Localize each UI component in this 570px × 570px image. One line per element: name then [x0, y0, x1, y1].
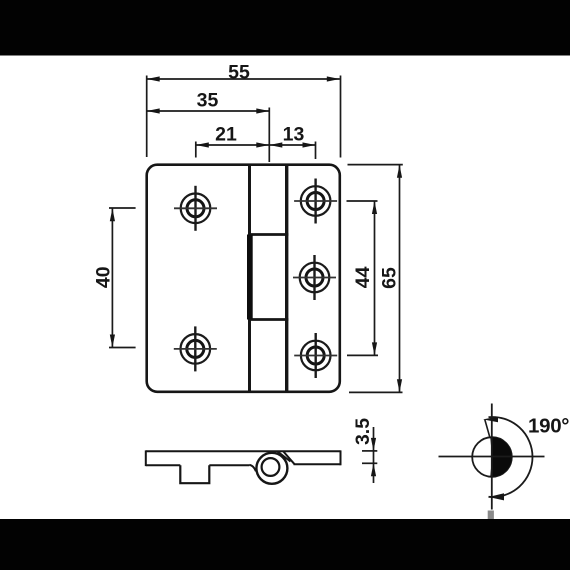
- svg-text:35: 35: [197, 90, 219, 112]
- extension tick bottom (bar bottom): [362, 462, 377, 464]
- arc end arrowhead: [489, 493, 505, 500]
- hole bottom-left: [174, 326, 217, 371]
- side view bar bottom edge segment 3: [294, 463, 341, 465]
- side view bar left edge: [145, 450, 147, 466]
- arrow below pointing up to bar bottom: [371, 463, 376, 476]
- extension line 13 right (hole column): [315, 142, 317, 160]
- hole top-left: [174, 186, 217, 231]
- hole middle-right: [293, 255, 336, 300]
- extension tick top (bar top): [362, 450, 377, 452]
- 190 degree arc: [489, 417, 533, 497]
- side view leaf wrap diagonal 2: [284, 452, 295, 465]
- centerline fade into bar: [488, 511, 494, 520]
- extension line top (plate top): [348, 164, 403, 166]
- angle start radial tick: [485, 420, 490, 438]
- arc start arrowhead: [483, 417, 498, 423]
- opening angle circle: [472, 437, 512, 477]
- side view leaf curl hook: [249, 465, 256, 471]
- hinge plate front view outline: [147, 165, 340, 392]
- side view bar bottom edge segment 1: [146, 464, 181, 466]
- side view bar right edge: [340, 450, 342, 465]
- extension tick bottom: [109, 347, 136, 349]
- extension line bottom (plate bottom): [349, 391, 403, 393]
- side view knuckle outer circle: [256, 453, 287, 484]
- top black letterbox bar: [0, 0, 570, 56]
- dimension 35 line: [147, 108, 270, 163]
- svg-text:190°: 190°: [528, 415, 569, 438]
- extension line right (plate right edge): [340, 76, 342, 158]
- side view bar bottom edge segment 2: [209, 464, 249, 466]
- knuckle upper divider: [248, 233, 288, 236]
- knuckle left edge line: [248, 164, 251, 393]
- svg-text:44: 44: [352, 266, 374, 288]
- svg-text:21: 21: [215, 124, 237, 146]
- svg-text:65: 65: [379, 267, 401, 289]
- svg-text:55: 55: [228, 61, 250, 83]
- opening angle filled 190-degree sector: [490, 437, 511, 477]
- arrow above pointing down to bar top: [371, 438, 376, 451]
- dimension 44 line: [347, 201, 379, 355]
- side view pin inner circle: [262, 458, 280, 476]
- bottom black letterbox bar: [0, 519, 570, 570]
- extension tick top: [109, 207, 136, 209]
- extension line bottom (hole row): [347, 354, 378, 356]
- hole bottom-right: [294, 333, 337, 378]
- dimension 40 line: [109, 208, 136, 348]
- dimension 3.5 line: [362, 427, 377, 483]
- dimension 21 line: [196, 142, 269, 158]
- side view mounting tab: [180, 465, 209, 483]
- angle symbol vertical centerline: [491, 404, 493, 510]
- hole top-right: [294, 179, 337, 224]
- knuckle lower divider: [248, 318, 288, 321]
- extension line 35 right (pin center): [268, 108, 270, 163]
- side view leaf wrap diagonal 1: [278, 452, 291, 462]
- svg-text:3.5: 3.5: [352, 418, 374, 445]
- svg-text:40: 40: [93, 266, 115, 288]
- dimension 13 line: [269, 142, 315, 160]
- extension line left (plate left edge): [146, 76, 148, 158]
- svg-text:13: 13: [283, 124, 305, 146]
- dimension 65 line: [348, 165, 403, 393]
- pin thick line middle segment: [247, 235, 253, 320]
- extension line top (hole row): [347, 200, 378, 202]
- dimension 55 line: [147, 76, 341, 158]
- knuckle right edge line: [285, 164, 288, 393]
- angle symbol horizontal centerline: [439, 456, 545, 458]
- extension line 21 left (hole column): [195, 142, 197, 158]
- side view leaf bar top edge: [146, 450, 341, 452]
